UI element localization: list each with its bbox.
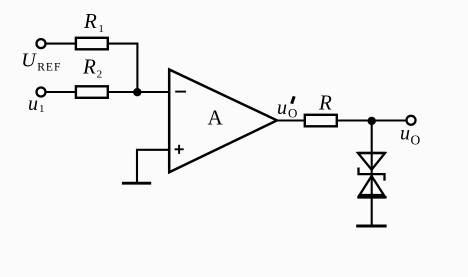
- svg-text:A: A: [208, 106, 224, 130]
- svg-text:R: R: [318, 91, 332, 115]
